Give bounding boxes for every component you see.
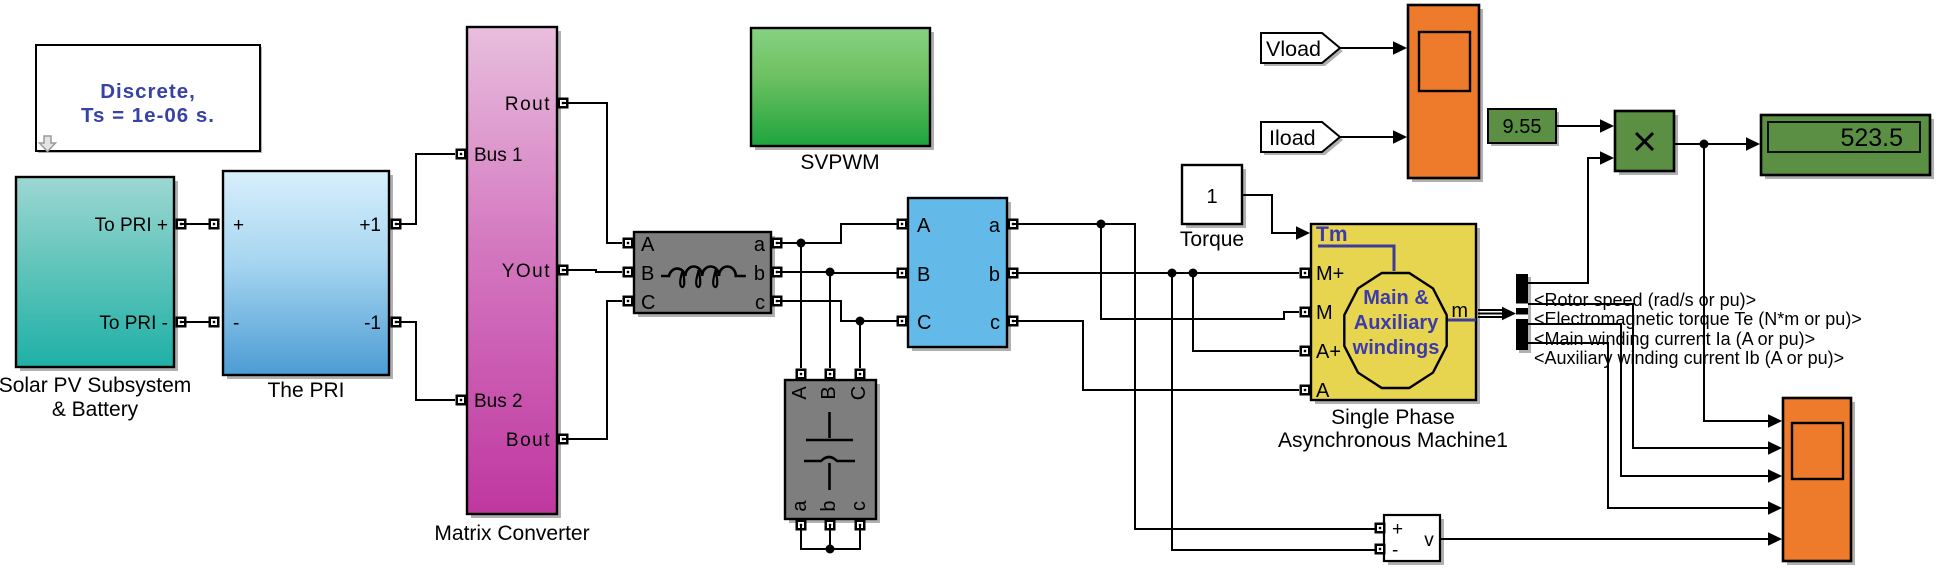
- svg-text:+1: +1: [359, 215, 381, 236]
- port capacitor a output: [796, 520, 807, 531]
- svg-text:C: C: [917, 312, 931, 334]
- svg-text:Tm: Tm: [1316, 223, 1348, 246]
- wire YOut to inductor B: [563, 270, 622, 272]
- wire 9.55 to product: [1556, 125, 1601, 127]
- block The PRI: [223, 171, 393, 402]
- port PRI -1 output: [391, 317, 402, 328]
- port bridge B input: [897, 268, 908, 279]
- port To PRI - output: [176, 317, 187, 328]
- svg-text:Auxiliary: Auxiliary: [1354, 312, 1439, 334]
- svg-text:B: B: [818, 386, 840, 399]
- junction node product out: [1700, 140, 1709, 149]
- svg-text:-: -: [1392, 540, 1398, 561]
- port bridge A input: [897, 219, 908, 230]
- svg-text:a: a: [754, 234, 766, 256]
- machine winding circle: [1344, 273, 1446, 388]
- port VM -: [1375, 544, 1386, 555]
- svg-text:The PRI: The PRI: [267, 379, 344, 402]
- wire Vload to Scope: [1340, 47, 1395, 49]
- svg-text:v: v: [1424, 530, 1434, 551]
- port capacitor A input: [796, 369, 807, 380]
- port machine M: [1300, 307, 1311, 318]
- svg-text:<Auxiliary winding current Ib: <Auxiliary winding current Ib (A or pu)>: [1534, 348, 1844, 368]
- svg-text:Discrete,: Discrete,: [100, 80, 196, 103]
- block Matrix Converter: [434, 27, 589, 545]
- svg-text:b: b: [754, 263, 765, 285]
- port Bus 2 input: [456, 395, 467, 406]
- port capacitor c output: [855, 520, 866, 531]
- inductor coil symbol: [661, 267, 746, 277]
- wire torque Te to Scope2: [1528, 304, 1769, 448]
- junction node b3: [1189, 269, 1198, 278]
- machine Single Phase Asynchronous Machine1: [1278, 223, 1508, 452]
- svg-text:M: M: [1316, 302, 1333, 324]
- junction node a2: [1097, 220, 1106, 229]
- wire inductor b to converter B: [777, 272, 897, 273]
- svg-text:A: A: [641, 234, 655, 256]
- wire Iload to Scope: [1340, 136, 1395, 138]
- junction node b: [826, 268, 835, 277]
- bus selector: [1516, 274, 1531, 353]
- port machine M+: [1300, 268, 1311, 279]
- scope Scope1: [1408, 5, 1483, 182]
- svg-text:M+: M+: [1316, 263, 1344, 285]
- svg-text:Single Phase: Single Phase: [1331, 406, 1455, 429]
- wire bridge c to machine A: [1013, 321, 1299, 390]
- svg-text:& Battery: & Battery: [52, 398, 139, 421]
- svg-text:a: a: [789, 500, 811, 512]
- port bridge b output: [1008, 268, 1019, 279]
- svg-text:B: B: [917, 264, 930, 286]
- port Rout output: [558, 98, 569, 109]
- port PRI +1 output: [391, 219, 402, 230]
- svg-text:YOut: YOut: [502, 261, 551, 282]
- wire branch c down to capacitor C: [859, 321, 861, 368]
- svg-text:Solar PV Subsystem: Solar PV Subsystem: [0, 374, 191, 397]
- port capacitor b output: [825, 520, 836, 531]
- wire VM to Scope2: [1440, 538, 1769, 540]
- port inductor b output: [772, 267, 783, 278]
- wire branch a down to capacitor A: [800, 243, 802, 368]
- svg-text:A: A: [1316, 380, 1330, 402]
- display 523.5: [1761, 115, 1934, 179]
- block Torque constant: [1180, 165, 1246, 251]
- block three-phase capacitor bank: [785, 380, 880, 523]
- svg-text:9.55: 9.55: [1503, 116, 1542, 138]
- block SVPWM: [751, 28, 934, 174]
- port machine A: [1300, 385, 1311, 396]
- wire current Ib to Scope2: [1528, 343, 1769, 508]
- wire machine m bus to bus selector: [1478, 310, 1502, 317]
- svg-text:C: C: [641, 292, 655, 314]
- svg-text:SVPWM: SVPWM: [800, 151, 879, 174]
- wire Tm blue link: [1318, 246, 1394, 271]
- port inductor C input: [623, 296, 634, 307]
- svg-text:c: c: [848, 501, 870, 511]
- port bridge a output: [1008, 219, 1019, 230]
- wire Solar PV - to PRI -: [181, 321, 214, 323]
- wire rotor speed to product: [1528, 158, 1601, 283]
- svg-text:A: A: [789, 386, 811, 400]
- svg-text:A: A: [917, 215, 931, 237]
- svg-text:Iload: Iload: [1269, 126, 1316, 150]
- wire branch a down to M port: [1101, 224, 1299, 319]
- wire current Ia to Scope2: [1528, 324, 1769, 476]
- wire Torque to Tm: [1242, 195, 1296, 233]
- svg-text:<Rotor speed (rad/s or pu)>: <Rotor speed (rad/s or pu)>: [1534, 290, 1756, 310]
- scope Scope2: [1783, 398, 1855, 565]
- wire PRI -1 to Bus 2: [396, 322, 455, 400]
- wire Bout to inductor C: [563, 301, 622, 439]
- block Solar PV Subsystem & Battery: [0, 177, 191, 421]
- svg-text:A+: A+: [1316, 341, 1341, 363]
- svg-text:windings: windings: [1352, 337, 1440, 359]
- wire inductor a to converter A: [777, 224, 897, 243]
- svg-text:Bus 1: Bus 1: [474, 145, 523, 166]
- wire Solar PV + to PRI +: [181, 223, 214, 225]
- wire branch b down to capacitor B: [829, 272, 831, 368]
- port inductor A input: [623, 238, 634, 249]
- svg-text:+: +: [233, 215, 244, 236]
- svg-text:Ts = 1e-06 s.: Ts = 1e-06 s.: [81, 104, 215, 127]
- svg-text:Matrix Converter: Matrix Converter: [434, 522, 589, 545]
- block three-phase converter bridge: [908, 198, 1011, 351]
- port inductor a output: [772, 238, 783, 249]
- svg-text:To PRI -: To PRI -: [99, 313, 168, 334]
- svg-text:To PRI +: To PRI +: [95, 215, 168, 236]
- svg-text:a: a: [989, 215, 1001, 237]
- port YOut output: [558, 265, 569, 276]
- svg-text:Bus 2: Bus 2: [474, 391, 523, 412]
- svg-text:<Electromagnetic torque Te (N*: <Electromagnetic torque Te (N*m or pu)>: [1534, 309, 1862, 329]
- svg-text:Asynchronous Machine1: Asynchronous Machine1: [1278, 429, 1508, 452]
- port Bout output: [558, 434, 569, 445]
- wire Rout to inductor A: [563, 103, 622, 243]
- junction node c: [856, 317, 865, 326]
- tag Vload: [1261, 33, 1343, 66]
- block three-phase series inductor branch: [634, 232, 775, 317]
- svg-text:523.5: 523.5: [1840, 124, 1903, 152]
- wire capacitor b neutral stub: [829, 525, 831, 549]
- port machine A+: [1300, 346, 1311, 357]
- wire branch b down to VM -: [1172, 273, 1375, 550]
- svg-text:Vload: Vload: [1266, 37, 1321, 61]
- wire product out down to Scope2: [1704, 144, 1769, 421]
- port capacitor B input: [825, 369, 836, 380]
- block voltage measurement VM: [1384, 515, 1444, 565]
- svg-text:Rout: Rout: [505, 94, 551, 115]
- wire product to display: [1674, 143, 1747, 145]
- display 9.55: [1488, 109, 1559, 146]
- port To PRI + output: [176, 219, 187, 230]
- port inductor B input: [623, 267, 634, 278]
- junction node a: [797, 239, 806, 248]
- junction node b2: [1168, 269, 1177, 278]
- svg-text:b: b: [818, 500, 840, 511]
- svg-text:b: b: [989, 264, 1000, 286]
- svg-text:+: +: [1392, 519, 1403, 540]
- svg-text:C: C: [848, 386, 870, 400]
- port inductor c output: [772, 296, 783, 307]
- wire bridge b to machine M+: [1013, 272, 1299, 274]
- svg-text:-1: -1: [364, 313, 381, 334]
- annotation Discrete sample time block: [36, 45, 262, 153]
- junction neutral node: [826, 545, 835, 554]
- capacitor symbol: [828, 412, 831, 438]
- svg-text:1: 1: [1206, 186, 1217, 208]
- svg-text:c: c: [755, 292, 765, 314]
- port VM +: [1375, 523, 1386, 534]
- wire branch b down to A+ port: [1193, 273, 1299, 351]
- port bridge C input: [897, 316, 908, 327]
- svg-text:c: c: [990, 312, 1000, 334]
- tag Iload: [1261, 122, 1343, 155]
- wire PRI +1 to Bus 1: [396, 154, 455, 224]
- port capacitor C input: [855, 369, 866, 380]
- wire bridge a to machine M (and VM +): [1013, 224, 1375, 529]
- svg-text:B: B: [641, 263, 654, 285]
- wire inductor c to converter C: [777, 301, 897, 321]
- port PRI - input: [209, 317, 220, 328]
- svg-text:<Main winding current Ia (A or: <Main winding current Ia (A or pu)>: [1534, 329, 1815, 349]
- svg-text:Main &: Main &: [1363, 287, 1429, 309]
- svg-text:Bout: Bout: [506, 430, 551, 451]
- product block: [1615, 111, 1678, 175]
- svg-text:Torque: Torque: [1180, 228, 1244, 251]
- port PRI + input: [209, 219, 220, 230]
- wire capacitor neutral tie: [801, 525, 860, 549]
- port Bus 1 input: [456, 149, 467, 160]
- svg-text:-: -: [233, 313, 239, 334]
- port bridge c output: [1008, 316, 1019, 327]
- wire m blue link: [1447, 319, 1476, 322]
